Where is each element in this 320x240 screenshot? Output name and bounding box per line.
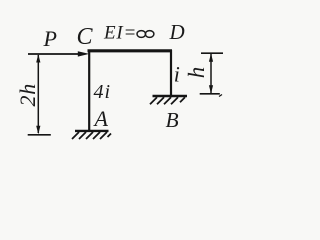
svg-text:A: A bbox=[93, 106, 109, 131]
svg-text:h: h bbox=[184, 67, 209, 79]
svg-text:D: D bbox=[169, 20, 185, 44]
svg-text:4i: 4i bbox=[94, 81, 112, 103]
svg-text:C: C bbox=[77, 24, 94, 50]
svg-text:i: i bbox=[174, 61, 180, 86]
svg-text:P: P bbox=[43, 26, 57, 51]
svg-text:2h: 2h bbox=[15, 83, 40, 107]
svg-text:B: B bbox=[166, 108, 179, 132]
svg-text:EI=: EI= bbox=[103, 23, 137, 44]
